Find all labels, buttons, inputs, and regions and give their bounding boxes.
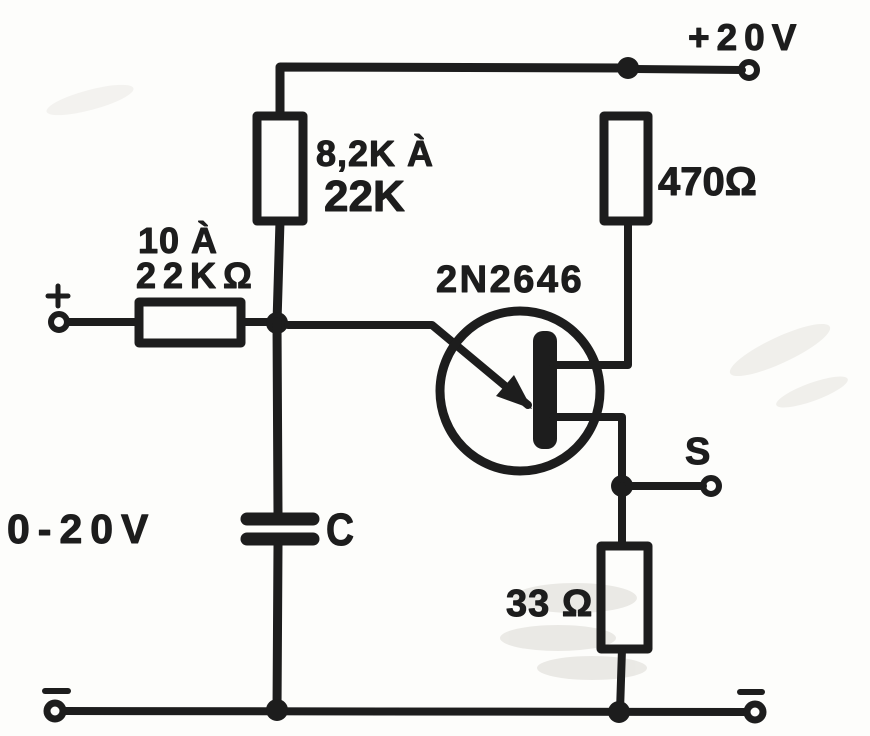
faint smudge top left [44, 79, 136, 122]
label + sign [48, 286, 68, 306]
resistor R4 33 ohm (vertical box) [601, 546, 648, 649]
svg-text:0-20V: 0-20V [7, 506, 156, 552]
emitter arrowhead [496, 375, 532, 409]
svg-text:+20V: +20V [688, 17, 803, 58]
terminal ground left (open circle) [47, 703, 63, 719]
label minus right [740, 689, 762, 695]
resistor R2 10 to 22K ohm (horizontal box) [139, 302, 241, 343]
wire: top rail from R1 top to +20V junction [280, 67, 628, 116]
terminal + input (open circle) [51, 314, 67, 330]
terminal +20V (open circle) [741, 62, 757, 78]
svg-text:2N2646: 2N2646 [436, 259, 584, 301]
svg-text:C: C [326, 504, 354, 555]
svg-text:33 Ω: 33 Ω [506, 583, 593, 625]
terminal ground right (open circle) [747, 704, 763, 720]
wire: junction down to R4 [618, 486, 626, 546]
node: top junction dot [617, 57, 639, 79]
label minus left [45, 688, 68, 694]
svg-text:S: S [685, 431, 710, 473]
wire: base-one from bar to S junction [553, 417, 622, 486]
node: bottom-left junction dot [266, 699, 288, 721]
resistor R3 470 ohm (vertical box) [604, 116, 648, 221]
wire: + terminal to R2 [68, 318, 139, 326]
node: bottom-right junction dot [608, 701, 630, 723]
wire: R1 bottom to emitter junction [277, 221, 280, 322]
transistor base bar [533, 331, 557, 449]
wire: capacitor to bottom rail [277, 545, 278, 711]
capacitor C top plate [247, 513, 313, 526]
wire: R2 to junction [241, 318, 270, 326]
wire: junction to +20V terminal [628, 69, 742, 70]
wire: R4 bottom to ground rail [620, 649, 622, 711]
wire: emitter lead horizontal then diagonal [288, 325, 528, 405]
wire: bottom rail [64, 711, 746, 712]
faint paper smudge right middle [725, 315, 851, 413]
node: emitter junction dot [266, 312, 288, 334]
wire: base-two from bar to 470 ohm leg [553, 221, 628, 365]
svg-text:22K: 22K [324, 172, 405, 221]
svg-text:8,2K À: 8,2K À [316, 133, 434, 174]
resistor R1 8,2K to 22K (vertical box) [257, 116, 303, 221]
wire: junction to S terminal [622, 482, 703, 490]
transistor Q1 2N2646 circle [440, 311, 600, 471]
terminal S (open circle) [703, 478, 719, 494]
node: S junction dot [611, 475, 633, 497]
capacitor C bottom plate [247, 533, 313, 546]
wire: junction down to capacitor [277, 322, 278, 513]
svg-text:470Ω: 470Ω [658, 160, 757, 204]
svg-text:22KΩ: 22KΩ [136, 255, 259, 296]
faint paper smudge lower right [500, 583, 647, 680]
